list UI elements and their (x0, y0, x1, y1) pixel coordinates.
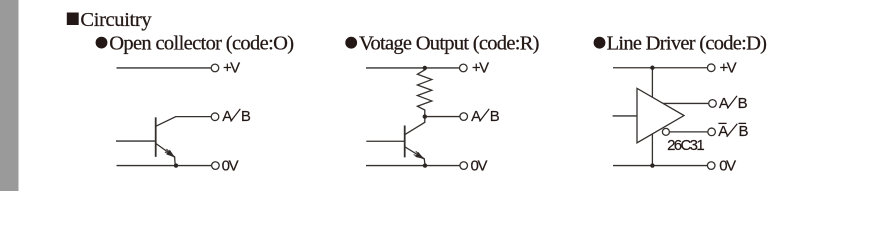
junction dot resistor top (423, 66, 427, 70)
bullet circuit 2 (345, 37, 357, 49)
driver U1 triangle (637, 88, 684, 143)
label A/B circuit 2 (471, 108, 500, 125)
terminal +V circuit 2 (460, 64, 468, 72)
svg-text:A: A (471, 108, 481, 125)
transistor Q2 collector (405, 117, 425, 135)
transistor Q2 base bar (404, 125, 406, 157)
wire 0V circuit 2 (366, 165, 460, 167)
bullet circuit 3 (594, 37, 606, 49)
svg-text:A: A (718, 123, 728, 140)
resistor R1 (417, 68, 431, 117)
wire +V circuit 2 (366, 67, 460, 69)
svg-text:B: B (739, 123, 749, 140)
svg-text:Line Driver (code:D): Line Driver (code:D) (607, 33, 767, 55)
junction dot Vcc circuit 3 (650, 66, 654, 70)
wire +V circuit 1 (117, 67, 212, 69)
wire A/B circuit 2 (425, 116, 460, 118)
junction dot emitter circuit 2 (423, 163, 427, 167)
wire inverted output circuit 3 (669, 131, 708, 133)
wire collector horizontal circuit 1 (156, 117, 212, 127)
terminal 0V circuit 2 (460, 162, 468, 170)
svg-text:B: B (241, 108, 251, 125)
terminal A/B circuit 1 (211, 113, 219, 121)
label A/B circuit 3 (719, 95, 748, 112)
wire +V circuit 3 (613, 67, 707, 69)
junction dot ground circuit 3 (650, 163, 654, 167)
svg-text:B: B (490, 108, 500, 125)
junction dot emitter circuit 1 (174, 163, 178, 167)
inversion bubble U1 (662, 128, 669, 135)
terminal +V circuit 1 (211, 64, 219, 72)
svg-text:Open collector (code:O): Open collector (code:O) (109, 33, 294, 55)
wire 0V circuit 1 (117, 165, 212, 167)
svg-text:0V: 0V (222, 158, 239, 175)
wire ground feed from driver (651, 134, 653, 166)
wire input circuit 3 (613, 115, 637, 117)
svg-text:Votage Output (code:R): Votage Output (code:R) (359, 33, 540, 55)
transistor Q2 emitter (405, 147, 425, 165)
wire 0V circuit 3 (613, 165, 707, 167)
terminal A/B circuit 2 (460, 113, 468, 121)
svg-text:0V: 0V (719, 158, 736, 175)
svg-text:26C31: 26C31 (667, 137, 705, 154)
arrowhead emitter Q2 (415, 152, 424, 159)
label inverted A/B circuit 3 (718, 123, 748, 140)
svg-text:+V: +V (720, 59, 737, 76)
terminal A/B circuit 3 (709, 100, 717, 108)
bullet circuit 1 (96, 37, 108, 49)
svg-text:Circuitry: Circuitry (80, 9, 152, 31)
svg-text:+V: +V (472, 59, 489, 76)
transistor Q1 emitter (156, 143, 175, 164)
wire base circuit 1 (116, 140, 156, 142)
terminal +V circuit 3 (707, 64, 715, 72)
svg-text:+V: +V (223, 59, 240, 76)
wire A/B output circuit 3 (663, 102, 709, 104)
arrowhead emitter Q1 (166, 150, 175, 158)
left gray margin bar (0, 0, 19, 191)
junction dot resistor bottom (423, 114, 427, 118)
svg-text:A: A (222, 108, 232, 125)
terminal 0V circuit 3 (707, 162, 715, 170)
wire Vcc feed to driver (651, 68, 653, 98)
terminal inverted A/B circuit 3 (708, 128, 716, 136)
svg-text:B: B (738, 95, 748, 112)
transistor Q1 base bar (155, 117, 157, 157)
svg-text:A: A (719, 95, 729, 112)
wire base circuit 2 (366, 140, 404, 142)
section square bullet (67, 13, 79, 26)
terminal 0V circuit 1 (212, 162, 220, 170)
label A/B circuit 1 (222, 108, 251, 125)
svg-text:0V: 0V (471, 158, 488, 175)
